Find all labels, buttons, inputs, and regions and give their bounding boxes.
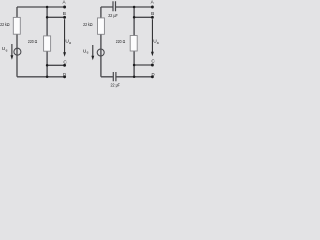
svg-text:e: e (6, 49, 8, 53)
svg-text:22 µF: 22 µF (111, 82, 120, 88)
svg-text:a: a (69, 41, 71, 45)
svg-text:220 Ω: 220 Ω (28, 39, 38, 45)
svg-text:22 kΩ: 22 kΩ (83, 22, 93, 28)
svg-text:a: a (157, 41, 159, 45)
svg-text:D: D (152, 72, 155, 77)
svg-text:D: D (63, 72, 66, 77)
svg-text:22 µF: 22 µF (108, 13, 118, 19)
svg-text:B: B (63, 11, 66, 16)
svg-text:22 kΩ: 22 kΩ (0, 22, 10, 28)
svg-text:B: B (151, 11, 154, 16)
svg-text:e: e (87, 51, 89, 55)
svg-text:220 Ω: 220 Ω (116, 39, 126, 45)
